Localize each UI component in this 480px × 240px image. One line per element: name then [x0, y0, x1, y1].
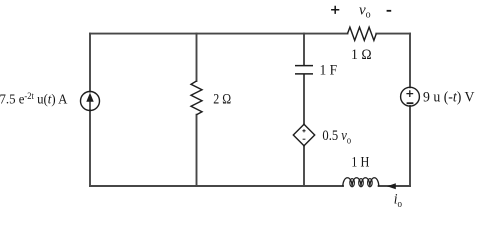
label 0.5 v_o — [322, 127, 351, 146]
dependent source minus sign — [303, 138, 306, 140]
dependent source plus sign — [302, 129, 305, 132]
label minus sign of v_o — [387, 10, 392, 12]
label i_o — [394, 191, 402, 210]
inductor coil arcs — [343, 178, 379, 187]
voltage source minus sign — [407, 102, 414, 104]
label 7.5 e^-2t u(t) A — [0, 91, 68, 106]
svg-text:2 Ω: 2 Ω — [213, 90, 231, 107]
svg-text:1 F: 1 F — [320, 62, 338, 79]
label v_o at top — [359, 3, 371, 21]
arrowhead of i_o current — [387, 183, 396, 189]
capacitor bottom plate — [295, 73, 313, 75]
svg-text:1 H: 1 H — [351, 153, 369, 169]
wire bottom horizontal left of inductor — [90, 185, 343, 187]
wire right vertical above voltage source — [409, 34, 411, 88]
wire middle branch above 2-ohm resistor — [196, 34, 198, 81]
current source arrow shaft — [89, 95, 91, 110]
label 2 ohm — [213, 90, 231, 107]
label 1 H — [351, 153, 369, 169]
voltage source plus sign — [406, 90, 413, 97]
label 1 F — [320, 62, 338, 79]
label 9 u(-t) V — [423, 89, 475, 106]
dependent source diamond — [293, 124, 314, 145]
wire left vertical below current source — [89, 110, 91, 186]
resistor 1-ohm zigzag — [348, 27, 377, 40]
wire top horizontal left of 1-ohm resistor — [90, 33, 348, 35]
wire right vertical below voltage source — [409, 106, 411, 186]
wire capacitor branch above capacitor — [303, 34, 305, 65]
wire bottom horizontal right of inductor — [379, 185, 410, 187]
svg-text:7.5 e-2t u(t) A: 7.5 e-2t u(t) A — [0, 91, 68, 106]
current source arrowhead — [86, 93, 93, 102]
wire middle branch below 2-ohm resistor — [196, 115, 198, 186]
inductor loop 2 — [359, 179, 364, 187]
wire capacitor branch below dependent source — [303, 146, 305, 186]
inductor loop 3 — [368, 179, 373, 187]
wire top horizontal right of 1-ohm resistor — [376, 33, 410, 35]
current source circle — [81, 92, 100, 111]
wire capacitor branch between capacitor and dependent source — [303, 75, 305, 125]
capacitor top plate — [295, 65, 313, 67]
resistor 2-ohm zigzag — [191, 81, 202, 115]
label 1 ohm — [351, 46, 372, 63]
wire left vertical above current source — [89, 34, 91, 92]
label plus sign of v_o — [331, 6, 339, 14]
inductor loop 1 — [350, 179, 355, 187]
voltage source circle — [401, 87, 420, 106]
svg-text:1 Ω: 1 Ω — [351, 46, 372, 63]
svg-text:9 u (-t) V: 9 u (-t) V — [423, 89, 475, 106]
